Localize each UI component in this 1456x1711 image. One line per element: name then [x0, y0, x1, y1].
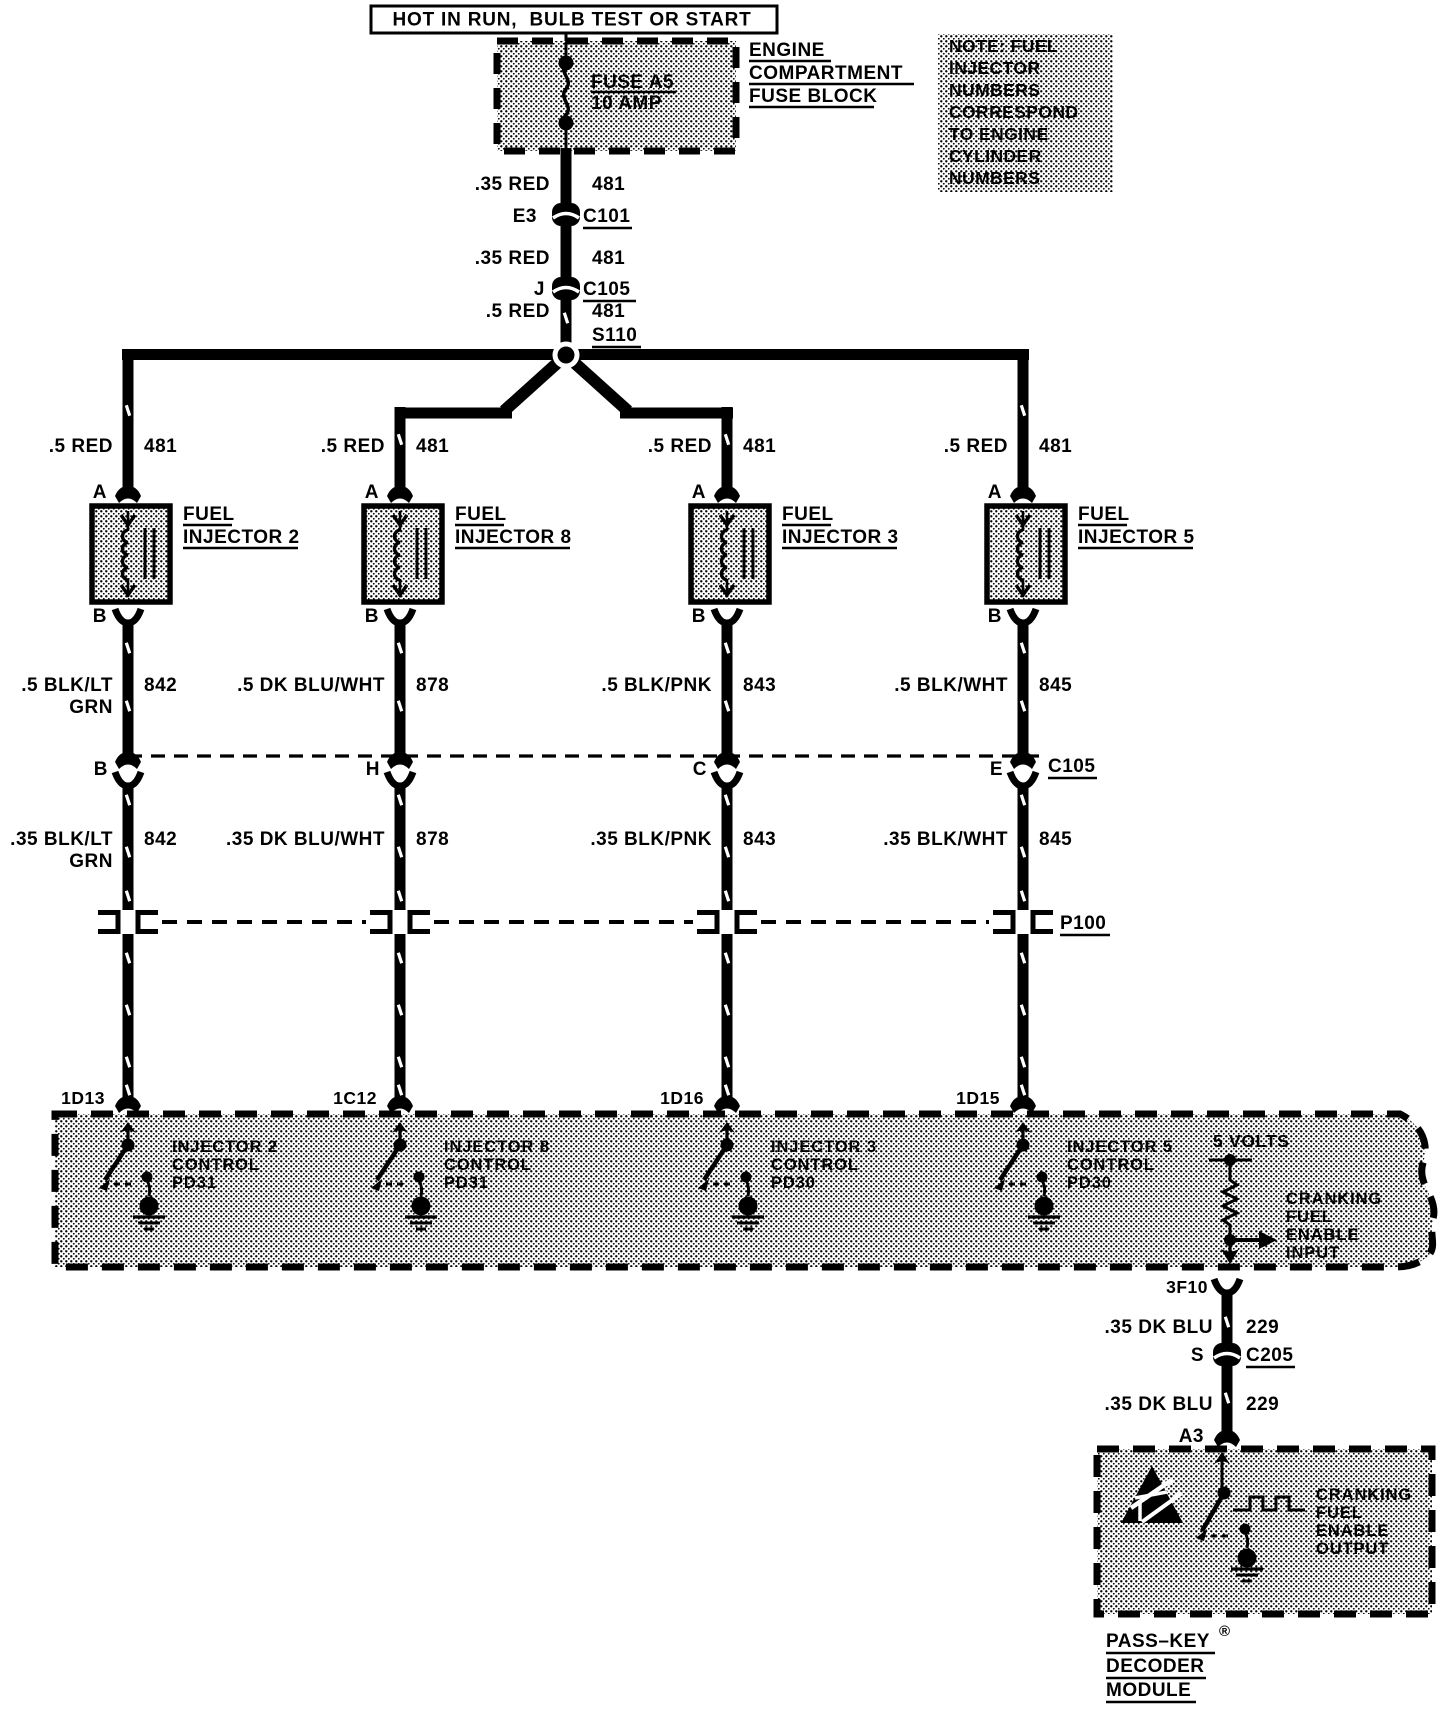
terminal pin A3 — [1214, 1430, 1240, 1447]
svg-text:878: 878 — [416, 829, 449, 850]
svg-text:GRN: GRN — [69, 697, 113, 718]
wire 878 C105 to P100 — [395, 783, 406, 910]
svg-text:843: 843 — [743, 829, 776, 850]
svg-text:INJECTOR 3: INJECTOR 3 — [771, 1138, 877, 1156]
wire 481 C101 to C105 — [561, 225, 572, 277]
svg-text:FUEL: FUEL — [1316, 1504, 1363, 1522]
svg-text:FUEL: FUEL — [183, 504, 235, 525]
svg-text:FUEL: FUEL — [782, 504, 834, 525]
svg-text:H: H — [366, 759, 380, 780]
branch diagonal left — [504, 357, 564, 411]
wire 843 P100 to PCM pin 1D16 — [722, 934, 733, 1100]
svg-text:P100: P100 — [1060, 913, 1106, 934]
injector 5 coil — [1017, 530, 1023, 580]
branch diagonal right — [568, 357, 628, 411]
svg-text:DECODER: DECODER — [1106, 1656, 1205, 1677]
fuel injector 5 — [987, 506, 1065, 602]
branch wire to injector 3 — [620, 408, 733, 419]
fuel injector 3 — [691, 506, 769, 602]
terminal pin B injector 2 — [115, 609, 141, 623]
.5 RED 481 wire to injector 5 — [1018, 349, 1029, 490]
svg-text:.35 RED: .35 RED — [475, 174, 550, 195]
svg-text:ENGINE: ENGINE — [749, 40, 825, 61]
wire 229 C205 to pass-key — [1222, 1365, 1233, 1434]
svg-text:INJECTOR 2: INJECTOR 2 — [183, 527, 300, 548]
terminal pin 1C12 — [387, 1096, 413, 1113]
svg-text:B: B — [94, 759, 108, 780]
svg-text:843: 843 — [743, 675, 776, 696]
svg-text:C105: C105 — [583, 279, 630, 300]
wire 481 C105 to S110 — [561, 299, 572, 352]
svg-text:481: 481 — [144, 436, 177, 457]
connector C105 — [552, 277, 580, 300]
svg-text:845: 845 — [1039, 829, 1072, 850]
svg-text:3F10: 3F10 — [1166, 1277, 1208, 1297]
svg-text:CONTROL: CONTROL — [172, 1156, 260, 1174]
terminal pin A injector 2 — [115, 486, 141, 503]
wire 845 P100 to PCM pin 1D15 — [1018, 934, 1029, 1100]
svg-text:.35 BLK/PNK: .35 BLK/PNK — [590, 829, 712, 850]
svg-text:PD31: PD31 — [172, 1174, 217, 1192]
svg-text:1D13: 1D13 — [61, 1088, 105, 1108]
wire from feed to fuse block — [565, 33, 568, 42]
svg-text:.5 RED: .5 RED — [49, 436, 113, 457]
svg-text:INJECTOR 5: INJECTOR 5 — [1067, 1138, 1173, 1156]
note box — [938, 34, 1113, 192]
connector C105 pin E — [1010, 752, 1036, 769]
svg-text:.5 BLK/WHT: .5 BLK/WHT — [894, 675, 1008, 696]
svg-text:845: 845 — [1039, 675, 1072, 696]
wire 845 injector 5 to C105 — [1018, 621, 1029, 755]
svg-text:®: ® — [1219, 1623, 1230, 1640]
svg-text:INPUT: INPUT — [1286, 1244, 1340, 1262]
fuel injector 2 — [92, 506, 170, 602]
wire 878 injector 8 to C105 — [395, 621, 406, 755]
connector C105 pin C — [714, 752, 740, 769]
svg-text:S: S — [1191, 1345, 1204, 1366]
svg-text:C: C — [693, 759, 707, 780]
injector 8 coil — [394, 530, 400, 580]
svg-text:CONTROL: CONTROL — [444, 1156, 532, 1174]
terminal pin 1D15 — [1010, 1096, 1036, 1113]
svg-text:COMPARTMENT: COMPARTMENT — [749, 63, 903, 84]
terminal pin B injector 3 — [714, 609, 740, 623]
engine compartment fuse block — [497, 41, 736, 151]
square wave signal — [1233, 1497, 1305, 1510]
svg-text:842: 842 — [144, 829, 177, 850]
svg-text:.35 DK BLU/WHT: .35 DK BLU/WHT — [226, 829, 385, 850]
svg-text:229: 229 — [1246, 1394, 1279, 1415]
svg-text:481: 481 — [592, 301, 625, 322]
svg-text:CONTROL: CONTROL — [771, 1156, 859, 1174]
svg-text:1D16: 1D16 — [660, 1088, 704, 1108]
grommet P100 dashed line — [761, 920, 989, 924]
svg-text:ENABLE: ENABLE — [1286, 1226, 1359, 1244]
svg-text:.5 RED: .5 RED — [648, 436, 712, 457]
.5 RED 481 wire to injector 8 — [395, 407, 406, 490]
svg-text:FUEL: FUEL — [1286, 1208, 1333, 1226]
svg-text:PD30: PD30 — [1067, 1174, 1112, 1192]
.5 RED 481 wire to injector 3 — [722, 407, 733, 490]
svg-text:FUSE BLOCK: FUSE BLOCK — [749, 86, 878, 107]
wire 843 C105 to P100 — [722, 783, 733, 910]
svg-text:B: B — [365, 606, 379, 627]
svg-text:FUSE A5: FUSE A5 — [591, 72, 674, 93]
svg-text:INJECTOR 2: INJECTOR 2 — [172, 1138, 278, 1156]
terminal pin 1D13 — [115, 1096, 141, 1113]
svg-text:C105: C105 — [1048, 756, 1095, 777]
svg-text:HOT IN RUN, BULB TEST OR STAR: HOT IN RUN, BULB TEST OR START — [392, 10, 751, 31]
fuel injector 8 — [364, 506, 442, 602]
wire 878 P100 to PCM pin 1C12 — [395, 934, 406, 1100]
wire 229 3F10 to C205 — [1222, 1291, 1233, 1344]
injector 2 coil — [122, 530, 128, 580]
svg-text:FUEL: FUEL — [1078, 504, 1130, 525]
svg-text:.35 BLK/LT: .35 BLK/LT — [10, 829, 113, 850]
fuse A5 symbol — [565, 42, 568, 60]
cranking fuel enable output driver — [1214, 1452, 1230, 1464]
terminal pin A injector 5 — [1010, 486, 1036, 503]
svg-text:10 AMP: 10 AMP — [591, 93, 662, 114]
wire 842 C105 to P100 — [123, 783, 134, 910]
svg-text:.35 RED: .35 RED — [475, 248, 550, 269]
wire 481 fuse to C101 — [561, 148, 572, 203]
svg-text:5 VOLTS: 5 VOLTS — [1213, 1131, 1290, 1151]
ground (cranking fuel enable driver) — [1231, 1567, 1263, 1570]
svg-text:1C12: 1C12 — [333, 1088, 377, 1108]
hot-in-run feed box — [371, 6, 777, 33]
terminal pin A injector 3 — [714, 486, 740, 503]
connector C205 — [1213, 1343, 1241, 1366]
svg-text:481: 481 — [592, 248, 625, 269]
svg-text:.5 RED: .5 RED — [944, 436, 1008, 457]
splice S110 — [553, 342, 580, 369]
svg-text:GRN: GRN — [69, 851, 113, 872]
.5 RED 481 wire to injector 2 — [123, 349, 134, 490]
PCM box — [55, 1114, 1434, 1267]
svg-text:1D15: 1D15 — [956, 1088, 1000, 1108]
svg-text:A: A — [692, 482, 706, 503]
svg-text:TO ENGINE: TO ENGINE — [949, 124, 1049, 144]
injector 3 control driver — [719, 1122, 735, 1133]
svg-text:MODULE: MODULE — [1106, 1680, 1191, 1701]
svg-text:B: B — [93, 606, 107, 627]
ground (injector 2 driver) — [133, 1215, 165, 1218]
svg-text:S110: S110 — [592, 325, 637, 346]
resistor (cranking fuel enable pull-up) — [1223, 1160, 1237, 1236]
ground (injector 3 driver) — [732, 1215, 764, 1218]
svg-text:CORRESPOND: CORRESPOND — [949, 102, 1078, 122]
svg-text:B: B — [692, 606, 706, 627]
svg-text:CONTROL: CONTROL — [1067, 1156, 1155, 1174]
svg-text:481: 481 — [1039, 436, 1072, 457]
wire 845 C105 to P100 — [1018, 783, 1029, 910]
svg-text:CRANKING: CRANKING — [1316, 1486, 1412, 1504]
svg-text:J: J — [534, 279, 545, 300]
connector C105 bulkhead line — [128, 754, 1040, 757]
connector C105 pin H — [387, 752, 413, 769]
svg-text:INJECTOR 3: INJECTOR 3 — [782, 527, 899, 548]
grommet P100 at wire 842 — [98, 913, 118, 932]
svg-text:ENABLE: ENABLE — [1316, 1522, 1389, 1540]
bus wire from S110 — [122, 349, 1029, 360]
svg-text:CRANKING: CRANKING — [1286, 1190, 1382, 1208]
svg-text:A3: A3 — [1179, 1426, 1204, 1447]
svg-text:.5 RED: .5 RED — [486, 301, 550, 322]
wire 842 P100 to PCM pin 1D13 — [123, 934, 134, 1100]
svg-text:C205: C205 — [1246, 1345, 1293, 1366]
svg-text:INJECTOR 8: INJECTOR 8 — [455, 527, 572, 548]
svg-text:.5 BLK/PNK: .5 BLK/PNK — [601, 675, 712, 696]
svg-text:C101: C101 — [583, 206, 630, 227]
svg-text:E3: E3 — [513, 206, 537, 227]
svg-text:.35 BLK/WHT: .35 BLK/WHT — [883, 829, 1008, 850]
connector C101 — [552, 203, 580, 226]
grommet P100 at wire 878 — [370, 913, 390, 932]
cranking fuel enable input arrow — [1230, 1238, 1262, 1242]
svg-text:.35 DK BLU: .35 DK BLU — [1105, 1394, 1213, 1415]
injector 5 control driver — [1015, 1122, 1031, 1133]
branch wire to injector 8 — [395, 408, 512, 419]
svg-text:481: 481 — [743, 436, 776, 457]
terminal pin 1D16 — [714, 1096, 740, 1113]
svg-text:NUMBERS: NUMBERS — [949, 168, 1040, 188]
injector 3 coil — [721, 530, 727, 580]
grommet P100 at wire 843 — [697, 913, 717, 932]
svg-text:OUTPUT: OUTPUT — [1316, 1540, 1389, 1558]
grommet P100 dashed line — [434, 920, 693, 924]
svg-text:INJECTOR 5: INJECTOR 5 — [1078, 527, 1195, 548]
svg-text:.5 BLK/LT: .5 BLK/LT — [21, 675, 113, 696]
svg-text:INJECTOR 8: INJECTOR 8 — [444, 1138, 550, 1156]
svg-text:INJECTOR: INJECTOR — [949, 58, 1040, 78]
svg-text:481: 481 — [592, 174, 625, 195]
svg-text:481: 481 — [416, 436, 449, 457]
ground (injector 8 driver) — [405, 1215, 437, 1218]
svg-text:PASS–KEY: PASS–KEY — [1106, 1631, 1210, 1652]
ESD sensitive symbol — [1121, 1466, 1183, 1523]
terminal pin A injector 8 — [387, 486, 413, 503]
svg-text:E: E — [990, 759, 1003, 780]
svg-text:878: 878 — [416, 675, 449, 696]
svg-text:229: 229 — [1246, 1317, 1279, 1338]
svg-text:.35 DK BLU: .35 DK BLU — [1105, 1317, 1213, 1338]
svg-text:FUEL: FUEL — [455, 504, 507, 525]
pass-key decoder module box — [1097, 1449, 1432, 1614]
svg-text:NUMBERS: NUMBERS — [949, 80, 1040, 100]
terminal pin B injector 5 — [1010, 609, 1036, 623]
svg-text:B: B — [988, 606, 1002, 627]
ground (injector 5 driver) — [1028, 1215, 1060, 1218]
svg-text:A: A — [988, 482, 1002, 503]
svg-text:.5 RED: .5 RED — [321, 436, 385, 457]
svg-text:PD30: PD30 — [771, 1174, 816, 1192]
svg-text:842: 842 — [144, 675, 177, 696]
injector 8 control driver — [392, 1122, 408, 1133]
wire 843 injector 3 to C105 — [722, 621, 733, 755]
svg-text:.5 DK BLU/WHT: .5 DK BLU/WHT — [237, 675, 385, 696]
terminal pin B injector 8 — [387, 609, 413, 623]
grommet P100 dashed line — [162, 920, 366, 924]
svg-text:CYLINDER: CYLINDER — [949, 146, 1042, 166]
svg-text:NOTE: FUEL: NOTE: FUEL — [949, 36, 1058, 56]
svg-text:PD31: PD31 — [444, 1174, 489, 1192]
connector C105 pin B — [115, 752, 141, 769]
svg-text:A: A — [365, 482, 379, 503]
svg-text:A: A — [93, 482, 107, 503]
wire 842 injector 2 to C105 — [123, 621, 134, 755]
injector 2 control driver — [120, 1122, 136, 1133]
grommet P100 at wire 845 — [993, 913, 1013, 932]
terminal pin 3F10 — [1214, 1279, 1240, 1293]
